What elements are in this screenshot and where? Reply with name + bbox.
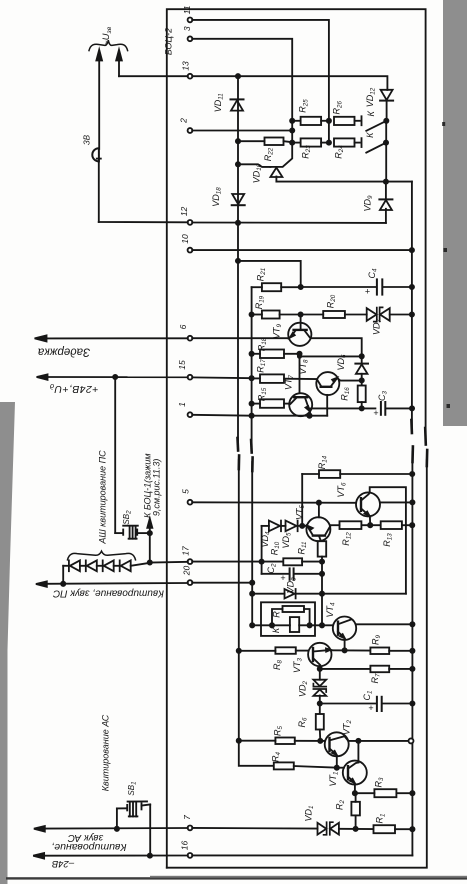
resistor R9 — [370, 648, 414, 655]
page separator line bottom — [6, 877, 467, 879]
capacitor polarity marks — [280, 286, 378, 713]
svg-text:R20: R20 — [326, 294, 338, 308]
svg-text:C2: C2 — [266, 563, 278, 574]
wire: main right bus — [411, 182, 413, 856]
terminal 12 — [188, 220, 193, 225]
transistor VT4 — [333, 617, 415, 651]
svg-text:VT3: VT3 — [292, 657, 304, 673]
terminal 1 — [188, 412, 193, 417]
wire: terminal 17 row — [150, 560, 283, 564]
svg-text:VT6: VT6 — [336, 482, 348, 498]
svg-text:+: + — [368, 703, 373, 713]
resistor R8 — [237, 647, 309, 654]
terminal 16 — [188, 853, 193, 858]
svg-text:R21: R21 — [256, 268, 268, 281]
resistor R17 — [252, 374, 317, 383]
diode VD10 — [236, 144, 292, 182]
terminal 13 — [188, 74, 193, 79]
svg-text:R2: R2 — [335, 799, 347, 810]
resistor R7 — [370, 666, 414, 673]
pushbutton SB1 — [117, 801, 150, 855]
arrow out: Zaderzhka — [35, 335, 47, 341]
svg-text:R25: R25 — [298, 99, 310, 113]
pushbutton SB2 — [115, 377, 150, 539]
terminal number labels — [177, 5, 192, 850]
arrow out: Kvitirovanie zvuk PS — [36, 581, 47, 586]
svg-text:VD9: VD9 — [363, 195, 375, 212]
diode VD3 — [250, 589, 406, 598]
svg-text:7: 7 — [182, 815, 192, 820]
wire: terminal 15 row / +24V line — [47, 375, 254, 380]
svg-text:АШ квитирование ПС: АШ квитирование ПС — [98, 450, 108, 545]
svg-text:+: + — [373, 408, 378, 418]
resistor R26 — [334, 117, 360, 125]
diode VD11 — [231, 99, 244, 110]
wire: VD10 anode row to bus (y182) — [276, 180, 412, 184]
resistor R25 — [290, 117, 331, 125]
transistor VT6 — [356, 487, 415, 594]
svg-text:9,см.рис.11.3): 9,см.рис.11.3) — [151, 459, 161, 517]
resistor R24 — [334, 138, 360, 146]
transistor VT7 — [289, 393, 312, 416]
svg-text:R8: R8 — [272, 659, 284, 670]
svg-text:13: 13 — [181, 61, 191, 71]
wire: R11/C2 column down to relay — [321, 562, 323, 626]
svg-text:C3: C3 — [377, 390, 389, 401]
svg-text:+: + — [280, 573, 285, 583]
scan gray band right — [443, 0, 467, 426]
capacitor C1 — [320, 697, 415, 711]
resistor R2 — [351, 793, 360, 831]
arrow out: +24V,+Ud — [37, 374, 48, 379]
resistor R23 — [290, 138, 331, 146]
svg-text:R15: R15 — [257, 387, 269, 401]
svg-text:R11: R11 — [297, 542, 309, 555]
resistor R3 — [353, 789, 415, 797]
svg-text:R16: R16 — [340, 387, 352, 401]
svg-text:R3: R3 — [374, 777, 386, 788]
wire: SB2 down to diode chain node — [148, 533, 152, 565]
svg-text:–24В: –24В — [51, 858, 75, 869]
wire: terminal 6 row (zaderzhka net) — [45, 338, 364, 358]
resistor R10 — [283, 558, 324, 565]
svg-text:R: R — [272, 611, 282, 618]
wire: R26/R24 mid column — [328, 121, 330, 143]
svg-text:VD5: VD5 — [281, 532, 293, 549]
resistor R5 — [237, 738, 325, 745]
svg-text:20: 20 — [182, 566, 192, 577]
diode VD5 — [281, 521, 307, 532]
capacitor C3 — [310, 402, 414, 415]
wire: terminal 2 row — [192, 128, 294, 132]
svg-text:1: 1 — [177, 402, 187, 407]
wire: terminal 12 row — [99, 221, 386, 225]
svg-text:Квитирование АС: Квитирование АС — [101, 714, 111, 791]
svg-text:К: К — [365, 132, 375, 138]
svg-text:R13: R13 — [382, 533, 394, 547]
terminal 3 — [188, 36, 193, 41]
svg-text:R4: R4 — [271, 751, 283, 762]
svg-text:VT4: VT4 — [325, 602, 337, 618]
svg-text:К: К — [366, 110, 376, 116]
terminal 6 — [188, 336, 193, 341]
svg-text:~Uзв: ~Uзв — [101, 26, 113, 46]
wire: terminal 20 row — [46, 581, 254, 586]
resistor R11 — [318, 541, 327, 561]
svg-text:15: 15 — [177, 360, 187, 370]
block border BOC-2 — [167, 9, 427, 868]
resistor R6 — [316, 704, 324, 741]
wire: terminal 16 row (-24V) — [43, 854, 412, 858]
wire: contact bus down to y182 node — [385, 121, 387, 182]
diode VD4 — [262, 521, 281, 532]
wire: VT3 emitter row (y669) — [318, 667, 371, 671]
zener VD7 (bidirectional) — [367, 307, 414, 321]
capacitor C2 — [262, 568, 325, 579]
resistor R19 — [250, 311, 303, 319]
wire: VT2 collector row to bus (open circle) — [348, 738, 413, 743]
terminal 11 — [188, 18, 193, 23]
wire: VT4 emitter row (y650) — [331, 648, 370, 652]
scan gray band left — [0, 402, 15, 884]
resistor R13 — [381, 521, 415, 529]
svg-text:R6: R6 — [297, 717, 309, 728]
wire: terminal 3 to R25 column — [192, 39, 292, 121]
svg-text:VD10: VD10 — [252, 163, 264, 183]
svg-text:R7: R7 — [370, 673, 382, 684]
svg-text:16: 16 — [180, 841, 190, 851]
wire: vertical rail A (terminal 12 net) — [238, 76, 274, 766]
svg-text:6: 6 — [178, 324, 188, 329]
wire: VD4 column (x261.6) — [261, 526, 263, 574]
resistor R22 — [236, 138, 292, 146]
svg-text:VD18: VD18 — [211, 187, 223, 207]
wire: terminal 5 row to VT6 base — [192, 501, 356, 505]
arrow up: ~U zv (left, bell line) — [96, 50, 102, 222]
svg-text:R12: R12 — [341, 532, 353, 546]
svg-text:R22: R22 — [263, 147, 275, 161]
svg-text:VD11: VD11 — [213, 93, 225, 112]
svg-text:17: 17 — [181, 546, 191, 556]
terminal 5 — [188, 500, 193, 505]
resistor R4 — [274, 762, 339, 769]
svg-text:R5: R5 — [273, 725, 285, 736]
terminal 7 — [188, 826, 193, 831]
terminal 10 — [188, 248, 193, 253]
svg-text:R1: R1 — [375, 814, 387, 824]
svg-text:R18: R18 — [257, 337, 269, 351]
arrow up: K BOC-1 — [147, 519, 152, 536]
diode VD6 — [355, 356, 368, 385]
svg-text:R19: R19 — [254, 295, 266, 309]
terminal 17 — [188, 559, 193, 564]
svg-text:VT7: VT7 — [284, 374, 296, 390]
svg-text:12: 12 — [179, 207, 189, 217]
brace ASh kvitirovanie PS — [68, 551, 136, 560]
svg-text:Задержка: Задержка — [38, 346, 90, 358]
svg-text:R26: R26 — [332, 101, 344, 115]
svg-text:VT1: VT1 — [328, 772, 340, 787]
svg-text:ЗВ: ЗВ — [83, 134, 92, 145]
svg-text:R9: R9 — [371, 634, 383, 645]
svg-text:VD2: VD2 — [298, 680, 310, 697]
resistor R16 — [358, 386, 366, 411]
svg-text:3: 3 — [182, 26, 192, 31]
svg-text:10: 10 — [180, 234, 190, 244]
transistor VT8 — [316, 372, 361, 416]
svg-text:К: К — [271, 627, 281, 633]
terminal 20 — [188, 580, 193, 585]
diode VD12 — [380, 90, 393, 121]
svg-text:VT5: VT5 — [295, 504, 307, 520]
arrow out: -24V — [33, 853, 44, 858]
diode chain (4x) kvitirovanie PS — [63, 560, 150, 571]
transistor VT2 — [325, 732, 349, 767]
svg-text:SB1: SB1 — [127, 781, 138, 795]
relay contact K (row 2) — [362, 138, 389, 152]
resistor R20 — [301, 311, 367, 318]
wire: terminal 13 row to VD12 — [119, 74, 387, 90]
svg-text:C1: C1 — [362, 691, 374, 701]
transistor VT1 — [337, 741, 367, 793]
svg-text:C4: C4 — [367, 268, 379, 279]
resistor R18 — [250, 350, 302, 359]
resistor R1 — [374, 825, 415, 833]
wire: terminal 10 row to bus — [192, 248, 414, 252]
svg-text:VD3: VD3 — [286, 577, 298, 594]
wire: R18 node down to VT7 base — [299, 354, 301, 394]
svg-text:VT9: VT9 — [272, 323, 284, 339]
resistor R21 — [252, 283, 301, 291]
svg-text:+: + — [365, 286, 370, 296]
diode VD18 — [232, 194, 245, 205]
arrow up: ~U zv (right, from terminal 13) — [116, 50, 122, 76]
resistor R15 — [250, 399, 290, 408]
svg-text:VD12: VD12 — [365, 87, 377, 107]
wire: terminal 1 row — [192, 414, 327, 418]
svg-text:SB2: SB2 — [122, 510, 133, 525]
transistor VT3 — [308, 643, 331, 669]
zener VD2 (bidirectional) — [313, 669, 326, 706]
diode VD9 — [379, 182, 392, 223]
wire: R18 node to VD6 top (y356) — [298, 355, 362, 358]
svg-text:БОЦ-2: БОЦ-2 — [164, 28, 174, 55]
wire: relay row (y625) to VT4 base — [250, 623, 333, 627]
varistor VD1 (bidirectional) — [318, 822, 374, 835]
terminal 15 — [188, 375, 193, 380]
wire: vertical rail B (bias net) — [251, 287, 253, 625]
svg-text:VD1: VD1 — [304, 806, 316, 822]
svg-text:VT2: VT2 — [342, 719, 354, 735]
brace ~U zv — [89, 40, 128, 50]
svg-text:Квитирование,: Квитирование, — [51, 841, 126, 853]
wire: terminal 11 to R26 column — [192, 20, 329, 121]
wire: R25/R23 mid column — [291, 121, 293, 143]
bell ZV — [92, 148, 101, 161]
wire: terminal 7 row — [44, 827, 318, 831]
relay K with resistor R — [261, 602, 315, 636]
svg-text:+24В,+Uд: +24В,+Uд — [50, 382, 99, 395]
resistor R14 — [302, 470, 414, 526]
transistor VT9 — [288, 315, 311, 346]
resistor R12 — [330, 521, 380, 529]
svg-text:R17: R17 — [256, 359, 268, 373]
component reference labels — [211, 87, 394, 823]
wire: chain to kvit. zvuk PS arrow — [62, 566, 64, 584]
transistor VT5 — [306, 503, 330, 542]
arrow out: Kvitirovanie zvuk AS — [34, 826, 45, 831]
svg-text:5: 5 — [181, 489, 191, 494]
svg-text:2: 2 — [179, 118, 189, 124]
wire: supply rail corner (A to R21 node) — [236, 259, 303, 289]
svg-text:11: 11 — [182, 5, 192, 14]
svg-text:R14: R14 — [317, 455, 329, 469]
capacitor C4 — [301, 279, 414, 294]
relay contact K (row 1) — [362, 116, 389, 131]
terminal 2 — [188, 128, 193, 133]
svg-text:R10: R10 — [270, 541, 282, 555]
svg-text:Квитирование, звук ПС: Квитирование, звук ПС — [52, 588, 164, 599]
